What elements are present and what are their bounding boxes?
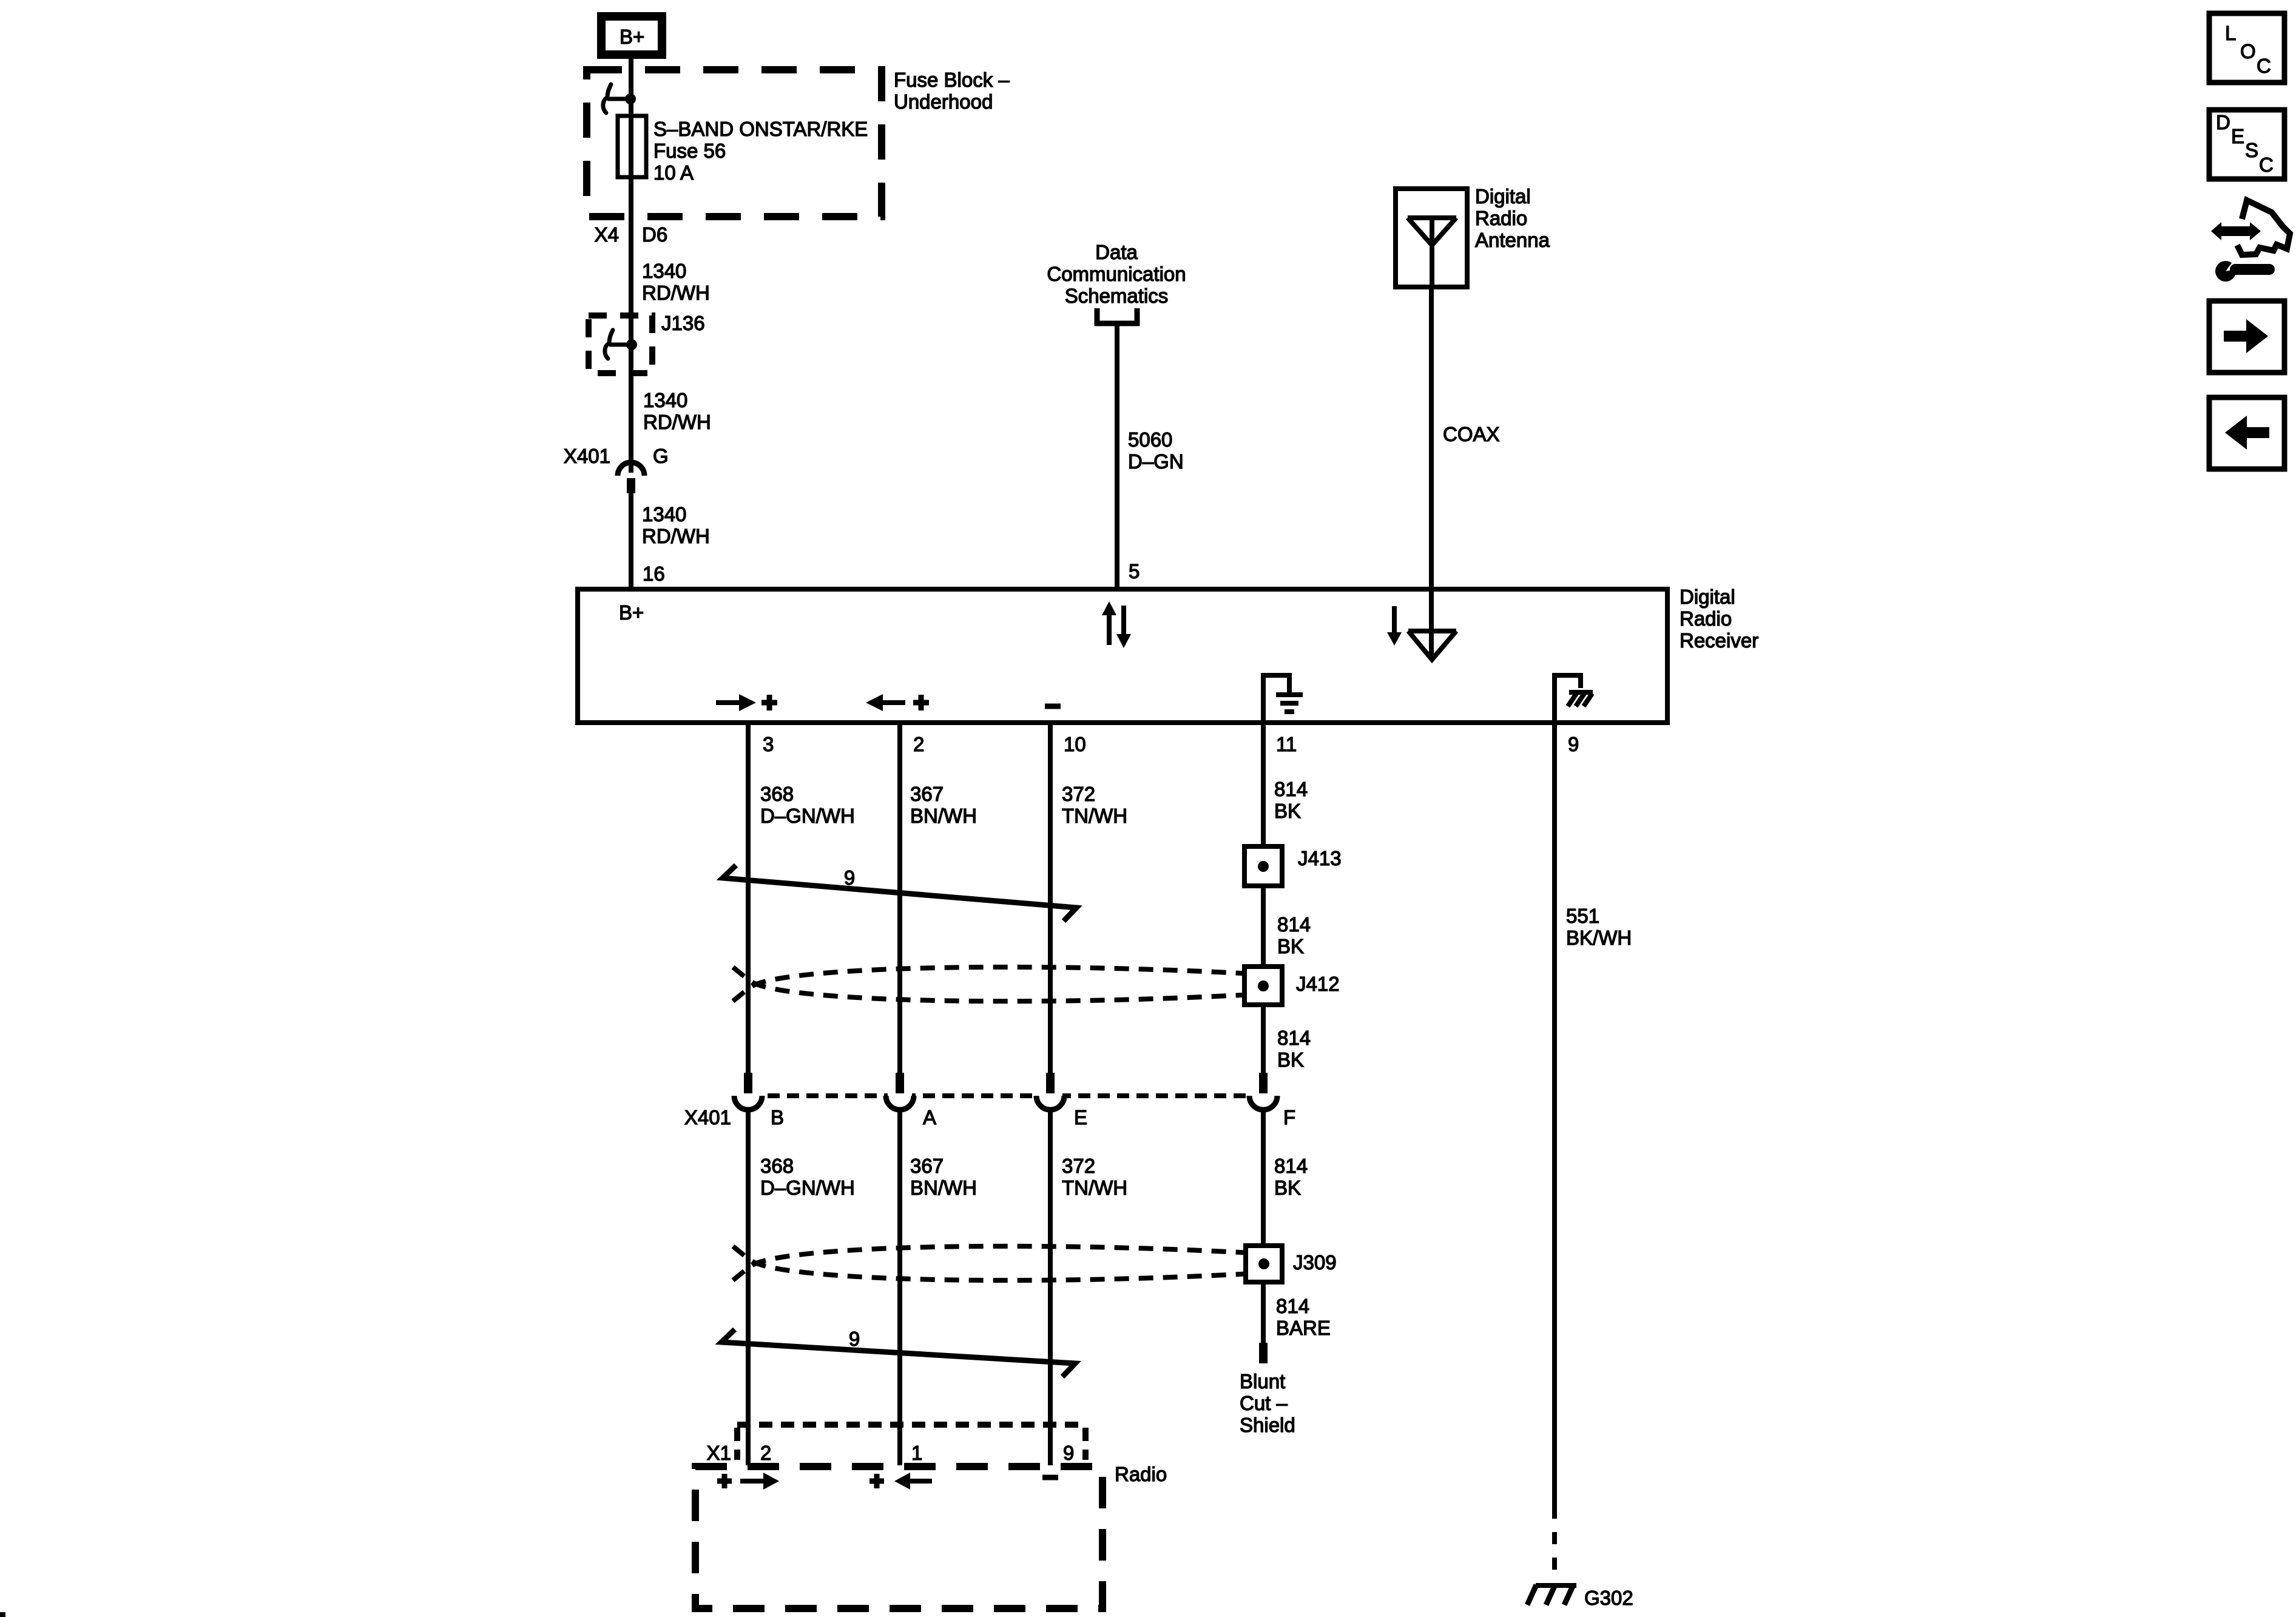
- svg-text:A: A: [923, 1106, 936, 1129]
- svg-text:BK: BK: [1274, 800, 1301, 822]
- svg-text:368: 368: [760, 783, 794, 805]
- svg-text:814: 814: [1277, 1027, 1311, 1049]
- svg-text:BN/WH: BN/WH: [910, 1176, 977, 1199]
- svg-text:Blunt: Blunt: [1240, 1370, 1285, 1393]
- svg-text:Underhood: Underhood: [894, 90, 993, 113]
- svg-text:TN/WH: TN/WH: [1062, 805, 1127, 827]
- svg-text:5: 5: [1129, 560, 1140, 582]
- svg-text:Fuse Block –: Fuse Block –: [894, 69, 1010, 91]
- svg-text:BARE: BARE: [1276, 1317, 1331, 1339]
- svg-text:X4: X4: [595, 223, 619, 246]
- svg-text:X401: X401: [564, 445, 610, 467]
- svg-text:BK: BK: [1277, 935, 1304, 957]
- svg-text:9: 9: [1568, 733, 1579, 755]
- svg-text:F: F: [1283, 1106, 1295, 1129]
- svg-text:J412: J412: [1296, 973, 1340, 995]
- svg-text:RD/WH: RD/WH: [643, 411, 711, 433]
- svg-text:TN/WH: TN/WH: [1062, 1176, 1127, 1199]
- svg-text:367: 367: [910, 1155, 944, 1177]
- svg-text:E: E: [2231, 125, 2244, 147]
- svg-text:9: 9: [844, 866, 855, 889]
- svg-text:D6: D6: [642, 223, 667, 246]
- svg-text:9: 9: [1063, 1442, 1074, 1464]
- svg-text:L: L: [2225, 22, 2236, 44]
- svg-text:S: S: [2245, 139, 2258, 161]
- svg-text:11: 11: [1276, 733, 1297, 755]
- svg-text:E: E: [1074, 1106, 1087, 1129]
- svg-text:551: 551: [1566, 905, 1599, 927]
- svg-text:367: 367: [910, 783, 944, 805]
- svg-text:9: 9: [849, 1328, 860, 1350]
- svg-text:10: 10: [1064, 733, 1086, 755]
- svg-text:BK/WH: BK/WH: [1566, 927, 1632, 949]
- svg-text:J413: J413: [1298, 847, 1342, 869]
- svg-text:Schematics: Schematics: [1065, 285, 1169, 307]
- svg-text:16: 16: [643, 562, 665, 585]
- svg-text:C: C: [2259, 154, 2274, 176]
- svg-text:814: 814: [1274, 1155, 1308, 1177]
- svg-text:1340: 1340: [642, 503, 686, 525]
- svg-text:Radio: Radio: [1680, 607, 1732, 630]
- svg-text:X1: X1: [707, 1442, 731, 1464]
- svg-text:G: G: [653, 445, 669, 467]
- svg-text:814: 814: [1276, 1295, 1309, 1317]
- svg-text:D–GN: D–GN: [1128, 450, 1184, 473]
- svg-text:Receiver: Receiver: [1680, 629, 1758, 652]
- svg-text:Cut –: Cut –: [1240, 1392, 1288, 1414]
- svg-text:372: 372: [1062, 1155, 1095, 1177]
- svg-text:Data: Data: [1095, 241, 1138, 263]
- svg-text:Digital: Digital: [1680, 586, 1735, 608]
- svg-text:RD/WH: RD/WH: [642, 282, 710, 304]
- svg-text:C: C: [2257, 55, 2271, 77]
- svg-text:Communication: Communication: [1047, 263, 1186, 285]
- svg-text:Radio: Radio: [1475, 207, 1527, 229]
- svg-text:COAX: COAX: [1443, 423, 1500, 445]
- svg-text:3: 3: [763, 733, 774, 755]
- svg-text:BN/WH: BN/WH: [910, 805, 977, 827]
- svg-text:Fuse 56: Fuse 56: [653, 140, 726, 162]
- svg-text:5060: 5060: [1128, 428, 1172, 451]
- svg-text:814: 814: [1277, 913, 1311, 936]
- svg-text:D–GN/WH: D–GN/WH: [760, 805, 855, 827]
- svg-text:1340: 1340: [643, 389, 687, 411]
- svg-text:Antenna: Antenna: [1475, 229, 1550, 251]
- svg-text:B+: B+: [620, 25, 644, 48]
- svg-text:2: 2: [760, 1442, 771, 1464]
- svg-text:B+: B+: [619, 601, 644, 624]
- svg-text:J309: J309: [1293, 1251, 1337, 1274]
- svg-text:2: 2: [913, 733, 924, 755]
- svg-text:10 A: 10 A: [653, 161, 694, 184]
- svg-text:G302: G302: [1584, 1587, 1633, 1609]
- svg-text:Shield: Shield: [1240, 1414, 1295, 1436]
- svg-text:X401: X401: [684, 1106, 731, 1129]
- svg-text:B: B: [771, 1106, 784, 1129]
- svg-text:Digital: Digital: [1475, 185, 1531, 208]
- svg-text:S–BAND ONSTAR/RKE: S–BAND ONSTAR/RKE: [653, 118, 868, 140]
- svg-text:368: 368: [760, 1155, 794, 1177]
- svg-text:J136: J136: [661, 312, 705, 334]
- svg-text:372: 372: [1062, 783, 1095, 805]
- svg-text:BK: BK: [1274, 1176, 1301, 1199]
- svg-text:D: D: [2216, 111, 2230, 133]
- svg-text:BK: BK: [1277, 1048, 1304, 1071]
- svg-text:814: 814: [1274, 778, 1308, 800]
- svg-text:RD/WH: RD/WH: [642, 525, 710, 547]
- svg-text:1340: 1340: [642, 260, 686, 282]
- svg-text:D–GN/WH: D–GN/WH: [760, 1176, 855, 1199]
- svg-text:O: O: [2240, 40, 2256, 62]
- svg-text:1: 1: [911, 1442, 922, 1464]
- svg-text:Radio: Radio: [1115, 1463, 1167, 1485]
